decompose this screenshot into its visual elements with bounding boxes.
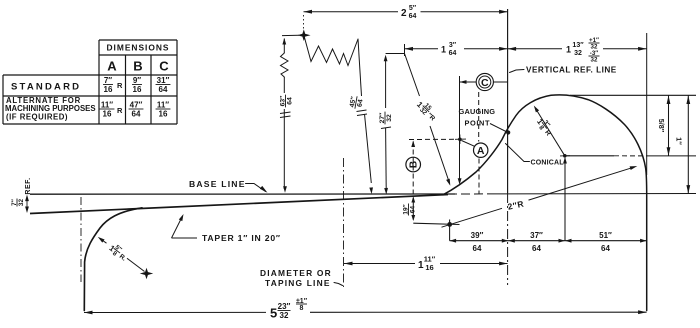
sawtooth break line [304, 35, 358, 66]
svg-text:TAPING LINE: TAPING LINE [265, 278, 331, 288]
svg-text:A: A [107, 59, 117, 74]
star point top [299, 31, 309, 40]
svg-text:STANDARD: STANDARD [11, 82, 81, 93]
base line label [189, 179, 246, 189]
svg-text:31″: 31″ [157, 76, 170, 85]
svg-text:8: 8 [300, 305, 304, 312]
hump radius label [534, 115, 556, 138]
taping line dash-dot vertical [343, 158, 345, 290]
svg-text:3″: 3″ [449, 42, 457, 49]
svg-text:64: 64 [132, 109, 141, 118]
dim 1 15/32 R line [405, 54, 451, 186]
balloon B [406, 157, 421, 172]
svg-text:B: B [409, 161, 420, 168]
dim row line [450, 240, 647, 242]
dim C line [460, 80, 508, 84]
dim 2R label [507, 199, 525, 212]
svg-text:VERTICAL REF. LINE: VERTICAL REF. LINE [526, 66, 617, 75]
svg-text:5″: 5″ [409, 5, 417, 12]
dim 37/64 label [530, 231, 543, 253]
table row ALTERNATE FOR MACHINING PURPOSES (IF REQUIRED) [5, 96, 96, 122]
svg-text:13″: 13″ [572, 42, 584, 49]
svg-text:(IF REQUIRED): (IF REQUIRED) [6, 113, 68, 122]
taping line leader [334, 283, 343, 286]
svg-text:CONICAL: CONICAL [531, 160, 565, 167]
svg-text:A: A [477, 145, 485, 157]
svg-text:DIMENSIONS: DIMENSIONS [106, 43, 169, 53]
dim 5 23/32 line [84, 310, 647, 314]
taper leader [172, 214, 198, 238]
tick left of star [282, 34, 299, 36]
left centerline dash-dot [80, 197, 82, 282]
balloon A [474, 143, 488, 157]
svg-text:1″: 1″ [675, 137, 684, 145]
svg-text:B: B [133, 59, 142, 74]
dim 5/8 label [657, 119, 666, 133]
dim 39/64 label [471, 231, 484, 253]
dim 2 5/64 label [401, 5, 417, 20]
extension line y95.3 [570, 94, 696, 96]
svg-text:BASE LINE: BASE LINE [189, 179, 246, 189]
svg-text:16: 16 [159, 109, 168, 118]
svg-text:16: 16 [133, 85, 142, 94]
dim 45/64 break tick [357, 110, 368, 116]
dim 2R line [442, 166, 638, 227]
svg-text:32: 32 [591, 56, 598, 63]
dim 27/32 label [379, 112, 393, 125]
diameter or taping line label [260, 268, 332, 288]
svg-text:64: 64 [409, 206, 416, 214]
dim 1 3/64 line [405, 47, 508, 51]
svg-text:GAUGING: GAUGING [459, 107, 496, 116]
svg-text:64: 64 [356, 99, 364, 108]
svg-text:64: 64 [601, 244, 610, 253]
table value standard B 9/16 [132, 76, 142, 94]
extension line y156 [565, 155, 696, 157]
table col C [159, 59, 169, 74]
taper line (1 in 20) [30, 195, 448, 214]
dim 1 11/16 line [344, 262, 508, 266]
balloon C [476, 73, 493, 90]
conical label [531, 160, 565, 167]
svg-text:64: 64 [473, 244, 482, 253]
svg-text:5: 5 [270, 306, 277, 321]
svg-text:5/8″: 5/8″ [657, 119, 666, 133]
table value alternate A 11/16 R [100, 101, 123, 119]
svg-text:1: 1 [566, 45, 571, 55]
svg-text:32: 32 [280, 311, 289, 320]
svg-text:POINT: POINT [465, 119, 491, 128]
conical leader [506, 144, 530, 162]
bracket corner [386, 44, 405, 56]
dim 45/64 line [358, 39, 373, 194]
vertical ref line [507, 9, 509, 285]
dashed line junction to B vertical [409, 138, 455, 140]
dim 2 5/64 line [304, 10, 508, 14]
svg-text:TAPER 1″ IN 20″: TAPER 1″ IN 20″ [202, 233, 281, 243]
svg-text:C: C [159, 59, 169, 74]
table: dimensions table grid [3, 40, 177, 124]
svg-text:R: R [117, 106, 123, 115]
table row STANDARD [11, 82, 81, 93]
dim 63/64 line upper [282, 38, 286, 53]
svg-text:7″: 7″ [104, 76, 112, 85]
svg-text:R: R [117, 81, 123, 90]
dim 1 3/64 label [441, 42, 457, 57]
dashed line A to base [478, 159, 480, 195]
svg-text:C: C [481, 77, 489, 89]
dim 1 11/16 label [418, 255, 436, 272]
dim 5 23/32 label [270, 298, 308, 321]
svg-text:32: 32 [18, 199, 25, 207]
dim row arrows [450, 239, 647, 243]
dim 7/32 arrows [25, 195, 29, 213]
dim 19/64 label [402, 204, 416, 216]
svg-text:11″: 11″ [157, 101, 169, 110]
svg-text:32: 32 [386, 114, 393, 122]
svg-text:2: 2 [401, 8, 407, 19]
fillet radius label 1 5/8 R [106, 241, 130, 264]
dim 1 13/32 line [508, 47, 647, 51]
gauging point leader [490, 124, 506, 132]
svg-text:1: 1 [441, 45, 446, 55]
base line solid part [30, 193, 455, 195]
junction cross lower [413, 220, 459, 241]
vertical ref line label [526, 66, 617, 75]
dim 27/32 break tick [381, 127, 391, 129]
table value standard C 31/64 [156, 76, 171, 94]
base line extension right [495, 193, 696, 195]
table value standard A 7/16 R [103, 76, 123, 94]
svg-text:64: 64 [159, 85, 168, 94]
base line leader [246, 184, 268, 193]
fillet radius leader line [98, 237, 145, 272]
dim 1 13/32 label [566, 42, 584, 57]
dim 27/32 line [384, 55, 388, 195]
dim 63/64 break tick [280, 112, 291, 118]
svg-text:16: 16 [104, 85, 113, 94]
svg-text:23″: 23″ [278, 302, 291, 311]
leader junction to A [462, 141, 475, 147]
gauging point dot [506, 130, 510, 134]
dim 1 inch label [675, 137, 684, 145]
svg-text:9″: 9″ [133, 76, 141, 85]
dim 63/64 label [279, 95, 293, 108]
svg-text:47″: 47″ [130, 101, 143, 110]
svg-text:64: 64 [287, 97, 294, 105]
dim tolerance +1/32 -3/32 [589, 37, 600, 63]
dim 45/64 label [349, 95, 365, 110]
taper label [202, 233, 281, 243]
svg-text:64: 64 [532, 244, 541, 253]
svg-text:64: 64 [409, 13, 417, 20]
vertical ref leader [510, 70, 525, 73]
hump radius leader [534, 106, 565, 156]
svg-text:16: 16 [103, 109, 112, 118]
B vertical dashed [411, 141, 415, 194]
base line dashed part under hump [448, 193, 495, 195]
dim 2 5/64 extension dotted [303, 15, 305, 30]
dim 1 15/32 R label [414, 98, 440, 124]
dim 19/64 line [411, 197, 415, 222]
svg-text:37″: 37″ [530, 231, 543, 240]
right vertical extension line [646, 33, 648, 175]
table value alternate C 11/16 [156, 101, 171, 119]
dim 63/64 line lower [283, 77, 287, 193]
gauging point label [459, 107, 496, 128]
table value alternate B 47/64 [129, 101, 144, 119]
dim 51/64 label [599, 231, 612, 253]
left fillet arc and left edge [84, 208, 142, 311]
dim 5/8 line [667, 96, 671, 156]
junction dot [455, 135, 466, 145]
svg-text:16: 16 [425, 263, 433, 272]
extension line x565 [563, 157, 567, 241]
dim 63/64 zigzag break [281, 53, 289, 77]
svg-text:11″: 11″ [101, 101, 113, 110]
table header DIMENSIONS [106, 43, 169, 53]
dim 1 inch line [686, 96, 690, 194]
svg-text:32: 32 [574, 50, 582, 57]
svg-text:REF.: REF. [25, 177, 32, 194]
table col A [107, 59, 117, 74]
svg-text:DIAMETER OR: DIAMETER OR [260, 268, 332, 278]
svg-text:39″: 39″ [471, 231, 484, 240]
vertical extension line at 459.5 [458, 76, 462, 185]
dim 7/32 REF label [11, 177, 32, 206]
svg-text:51″: 51″ [599, 231, 612, 240]
svg-text:64: 64 [449, 50, 457, 57]
fillet radius star point [141, 269, 151, 278]
profile hump curve [443, 95, 647, 311]
table col B [133, 59, 142, 74]
junction dot right [560, 154, 570, 158]
dashed line C to A [478, 92, 480, 142]
